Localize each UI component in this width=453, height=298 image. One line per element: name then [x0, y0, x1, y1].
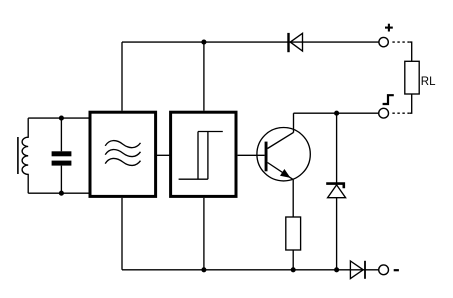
schmitt trigger block U2: [171, 112, 236, 196]
wire: emitter down: [292, 180, 294, 217]
transistor emitter arrowhead: [280, 169, 291, 178]
wire: zener branch lower: [336, 198, 338, 270]
wire: dotted + to RL: [392, 41, 410, 43]
transistor base bar: [265, 142, 268, 172]
wire: capacitor branch bottom: [60, 166, 62, 194]
label +: [385, 27, 393, 29]
svg-text:RL: RL: [421, 76, 436, 88]
hysteresis symbol: [198, 131, 223, 133]
transistor emitter stroke: [268, 163, 294, 180]
wire: top supply rail: [122, 41, 379, 43]
diode D2 (output diode): [350, 261, 363, 279]
label -: [394, 269, 399, 271]
wire: base: [238, 154, 265, 156]
oscillator block U1: [90, 112, 156, 196]
inductor core bar: [17, 137, 19, 174]
zener diode Z1 triangle: [328, 185, 346, 198]
node: top rail junction: [201, 40, 206, 45]
wire: oscillator block bottom drop: [121, 198, 123, 270]
terminal -: [379, 265, 389, 275]
wire: link between blocks: [157, 154, 170, 156]
wire: bottom rail: [122, 269, 379, 271]
wire: tank top rail: [28, 117, 89, 119]
terminal output: [379, 108, 389, 118]
diode D1 (reverse polarity protection): [287, 33, 289, 52]
transistor collector stroke: [268, 132, 294, 148]
label switching output step symbol: [383, 95, 394, 104]
wire: collector rail: [294, 112, 379, 114]
resistor RL: [405, 61, 419, 94]
capacitor C1 plates: [52, 151, 72, 156]
zener diode Z1 cathode bar: [326, 184, 344, 189]
wire: schmitt block bottom drop: [203, 198, 205, 270]
wire: riser to oscillator block top: [121, 42, 123, 111]
node: bottom rail junction at zener: [334, 267, 339, 272]
inductor L1 (coil, 4 humps): [22, 118, 28, 193]
node: zener top junction: [334, 111, 339, 116]
terminal +: [379, 37, 388, 46]
wire: RL top lead: [410, 42, 412, 61]
wire: capacitor branch top: [60, 118, 62, 151]
wire: dotted output to RL: [392, 112, 410, 114]
node: tank top junction: [59, 116, 64, 121]
wire: tank bottom rail: [28, 192, 89, 194]
transistor Q1 circle: [257, 128, 310, 181]
resistor R1: [286, 217, 301, 250]
wire: RL bottom lead: [410, 94, 412, 113]
node: tank bottom junction: [59, 191, 64, 196]
wire: collector riser: [293, 113, 295, 132]
wire: R1 to bottom rail: [292, 250, 294, 270]
oscillator waves symbol: [105, 141, 140, 148]
node: bottom rail junction at emitter resistor: [291, 267, 296, 272]
node: bottom rail junction at schmitt drop: [201, 267, 206, 272]
wire: zener branch upper: [336, 113, 338, 183]
wire: riser to schmitt block top: [203, 42, 205, 111]
